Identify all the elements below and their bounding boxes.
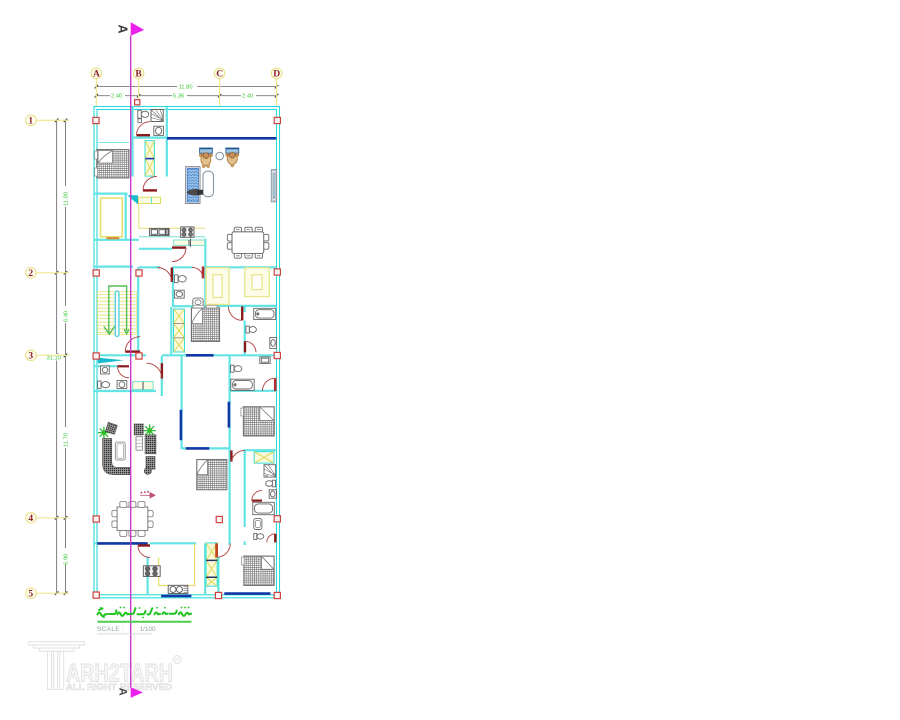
wall corridor east bedroom2 west — [170, 307, 172, 356]
door bedroom5 — [217, 543, 231, 557]
wall wc west — [172, 267, 174, 307]
navy window kitchen2 bottom — [161, 595, 191, 598]
bath5 shower — [264, 465, 276, 477]
svg-text:31.10: 31.10 — [47, 356, 62, 362]
wall axis2 landing — [94, 266, 133, 268]
wall living south / kitchen north — [94, 542, 196, 544]
svg-text:6.90: 6.90 — [64, 554, 70, 565]
navy window patio west — [180, 410, 183, 440]
scale underline — [97, 633, 152, 635]
wall bedroom3 south — [244, 449, 277, 451]
yellow closet3 (bath5 north) — [254, 452, 274, 463]
stairs center slot — [115, 291, 119, 337]
corner markers — [93, 100, 281, 599]
hall washer — [117, 381, 127, 389]
yellow kitchen top counter — [139, 197, 161, 203]
door kitchen top — [172, 248, 186, 262]
yellow kitchenette ring right — [245, 268, 269, 297]
magenta section line — [130, 36, 132, 688]
wc bidet — [193, 298, 203, 306]
teal wedge bedroom1 door — [127, 195, 138, 204]
office desk1 — [199, 148, 212, 168]
sofa seat2 right — [146, 457, 155, 470]
yellow closet4 column — [206, 543, 217, 586]
wall hall east — [161, 356, 163, 396]
bath1 shower — [151, 110, 163, 122]
teal wedge stairs — [98, 358, 124, 364]
svg-text:A: A — [93, 70, 100, 80]
svg-text:5: 5 — [28, 590, 33, 600]
dining1 table — [232, 232, 264, 254]
svg-text:2: 2 — [28, 269, 33, 279]
wall kitchenette south — [206, 305, 277, 307]
svg-text:11.80: 11.80 — [64, 192, 70, 206]
wall hall south — [94, 390, 156, 392]
sofa loveseat right — [145, 435, 156, 454]
plant living left — [98, 427, 110, 439]
plant living right — [143, 424, 155, 436]
office printer — [188, 189, 204, 196]
bath4 cabinet — [260, 357, 270, 364]
svg-text:B: B — [135, 70, 142, 80]
door bath5 mid — [252, 490, 262, 500]
left dim green texts — [46, 186, 70, 565]
door kitchen2 — [138, 546, 150, 558]
navy window living south — [97, 542, 148, 545]
bath5 toilet2 — [254, 533, 264, 539]
green underline — [98, 621, 192, 623]
bedroom1 shelf line — [97, 142, 129, 144]
wall bedroom2 east — [244, 307, 246, 356]
door bath4 — [262, 378, 275, 391]
wall stair east — [137, 267, 139, 357]
wall bedroom1 east — [131, 107, 133, 177]
wall patio east long — [229, 356, 231, 545]
wall closet4 east — [217, 557, 219, 595]
watermark column logo — [29, 642, 85, 690]
kitchen2 sink — [168, 585, 188, 593]
bath3 toilet — [246, 326, 257, 333]
dining2 chairs — [112, 502, 153, 537]
top dim text 11.80 — [110, 84, 256, 100]
wall patio west — [181, 356, 183, 449]
bed4 middle bottom — [197, 459, 227, 489]
bath1 sink — [154, 126, 164, 135]
office couch — [203, 171, 214, 197]
grid bubbles A B C D — [91, 68, 282, 80]
door hall mid — [157, 268, 172, 283]
bath5 toilet — [266, 480, 276, 487]
navy closet4 dividers — [206, 560, 217, 577]
navy window bedroom5 bottom — [224, 592, 270, 595]
green persian title — [98, 607, 192, 619]
wall bedroom1 south — [94, 193, 128, 195]
bath4 tub — [231, 379, 254, 390]
hall sink — [101, 366, 110, 374]
svg-text:2.40: 2.40 — [242, 94, 253, 100]
office blue cabinet — [186, 167, 200, 204]
wall storage south — [94, 239, 139, 241]
yellow kitchen2 U counter — [159, 544, 195, 586]
wall storage east — [125, 194, 127, 240]
bed2 middle — [191, 305, 219, 341]
wall patio south — [182, 447, 230, 449]
wall bottomleft east — [147, 558, 149, 596]
door stairs — [125, 337, 140, 352]
wall bath5 west — [244, 450, 246, 545]
svg-text:11.70: 11.70 — [64, 433, 70, 447]
office round table — [216, 152, 224, 160]
wall kitchen east — [204, 239, 206, 268]
orange storage door marks — [106, 237, 119, 239]
wall kitchen south — [139, 248, 172, 250]
dining1 chairs — [227, 227, 268, 258]
bed3 right — [241, 407, 274, 436]
yellow closet1 (top corridor) — [145, 141, 154, 177]
svg-text:5.36: 5.36 — [173, 94, 184, 100]
sofa armchair right top — [134, 424, 143, 435]
navy window axis3 — [186, 354, 214, 357]
navy closet divider top — [145, 158, 154, 160]
bath5 sink1 — [269, 490, 276, 498]
svg-text:4: 4 — [28, 514, 33, 524]
stairs yellow treads — [98, 292, 137, 335]
svg-text:C: C — [216, 70, 223, 80]
wall wc south — [173, 305, 206, 307]
wc sink — [174, 290, 184, 298]
svg-text:11.80: 11.80 — [179, 85, 193, 91]
bath3 sink — [270, 338, 277, 349]
svg-text:D: D — [273, 70, 280, 80]
kitchen sink unit — [150, 228, 170, 235]
outer wall double line — [94, 107, 280, 598]
sofa coffee table — [115, 442, 125, 460]
navy window patio east — [228, 402, 231, 428]
wall hallbath north — [94, 365, 118, 367]
door bedroom1 — [143, 176, 157, 190]
kitchen stove — [181, 227, 194, 237]
bath5 bidet — [254, 519, 262, 530]
left bubbles 1-5 — [26, 115, 37, 600]
wall bath1 south — [131, 137, 167, 139]
bath4 toilet — [231, 365, 242, 372]
left dimension vertical lines — [54, 120, 68, 593]
door bedroom2 — [228, 307, 242, 321]
door bath1 — [137, 122, 151, 136]
section arrow bottom triangle — [131, 687, 143, 698]
bath3 tub — [254, 308, 276, 319]
yellow hall counter — [133, 382, 153, 390]
yellow kitchen counter band — [139, 227, 205, 229]
yellow storage room inner rect — [101, 198, 123, 237]
svg-text:SCALE :: SCALE : — [97, 626, 124, 633]
dimension ticks top — [95, 85, 279, 98]
svg-text:3: 3 — [28, 352, 33, 362]
dining2 table — [117, 507, 148, 531]
interior partition walls (cyan) — [94, 107, 277, 595]
top dim texts row2 — [110, 93, 125, 99]
kitchen2 stove — [143, 566, 160, 577]
svg-text:6.40: 6.40 — [64, 311, 70, 322]
sofa L left — [103, 439, 130, 475]
top grid dimension line 1 — [96, 84, 276, 99]
door hallbath — [118, 366, 130, 378]
svg-text:1/100: 1/100 — [140, 626, 156, 633]
stairs green rail — [104, 286, 129, 334]
bed1 top-left — [95, 150, 129, 179]
wall bath4 south — [230, 390, 277, 392]
compass north arrow — [140, 491, 155, 498]
office desk2 — [226, 148, 239, 167]
door bath3 — [245, 341, 256, 352]
left dimension ticks — [55, 119, 68, 596]
wall axis2 hall segments — [139, 266, 277, 268]
yellow closet2 bedroom2 west — [174, 309, 185, 352]
navy window top office — [97, 138, 276, 596]
door wc — [192, 267, 203, 279]
yellow kitchen lower cabinet — [174, 240, 205, 245]
wall axis3 full — [94, 354, 277, 356]
svg-text:A: A — [117, 688, 129, 696]
door hall bottom — [147, 363, 162, 378]
svg-text:A: A — [116, 25, 130, 34]
office window panel right — [271, 170, 276, 202]
top grid dimension line 2 — [96, 93, 276, 99]
door bath5 — [267, 534, 276, 543]
wall kitchen2 east — [204, 543, 206, 595]
bath1 small sink — [138, 119, 142, 123]
grid bubble leaders (yellow) — [96, 79, 276, 107]
svg-text:1: 1 — [28, 117, 33, 127]
hall toilet — [98, 381, 110, 388]
wall office west — [166, 107, 168, 177]
bath1 toilet — [138, 110, 149, 118]
bed5 bottom right — [242, 556, 275, 586]
sofa side table right — [136, 437, 142, 451]
wc toilet — [174, 275, 186, 283]
sofa pouf — [144, 468, 151, 475]
yellow kitchenette ring left — [206, 268, 229, 305]
sofa armchair top diamond — [105, 422, 117, 434]
navy window patio south — [186, 447, 210, 450]
watermark registered mark — [173, 656, 181, 664]
svg-text:R: R — [175, 658, 180, 664]
svg-text:2.40: 2.40 — [111, 94, 122, 100]
door bedroom3 — [231, 450, 245, 461]
wall wc east / kitchenette west — [204, 267, 206, 307]
bath5 tub — [253, 502, 274, 514]
section arrow top triangle — [131, 22, 145, 36]
left bubble leaders yellow — [36, 120, 69, 593]
